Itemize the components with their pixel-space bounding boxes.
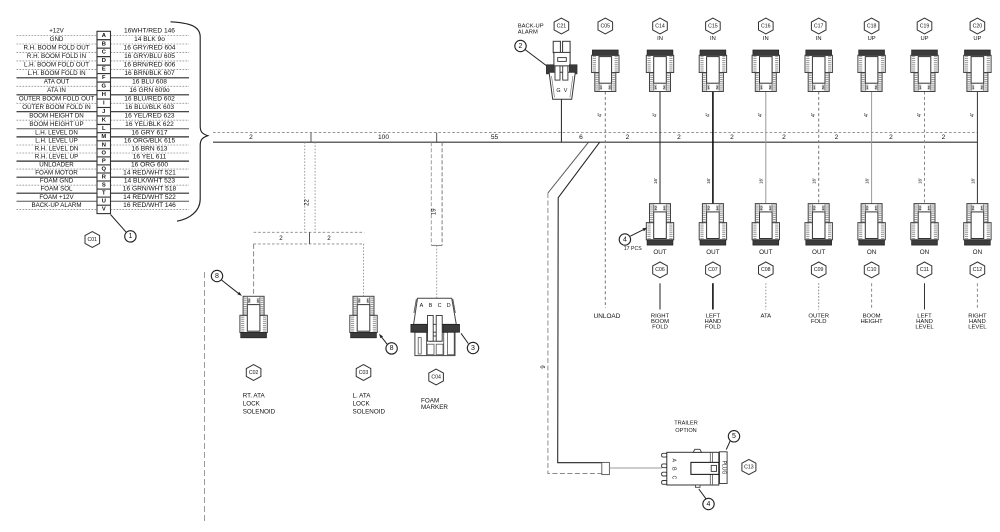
svg-text:4': 4' <box>864 113 870 117</box>
svg-text:R.H. LEVEL DN: R.H. LEVEL DN <box>35 146 79 153</box>
svg-text:A: A <box>420 303 424 309</box>
svg-text:T: T <box>102 191 106 197</box>
svg-text:16 YEL 611: 16 YEL 611 <box>133 154 167 161</box>
svg-text:GND: GND <box>50 36 64 43</box>
svg-text:A: A <box>670 459 676 463</box>
svg-text:C17: C17 <box>814 23 824 29</box>
svg-text:L: L <box>102 126 106 132</box>
svg-text:C: C <box>670 476 676 480</box>
svg-text:OUT: OUT <box>653 249 666 256</box>
svg-text:FOAM +12V: FOAM +12V <box>39 194 74 201</box>
svg-text:4': 4' <box>705 113 711 117</box>
svg-text:PLUG: PLUG <box>720 461 726 475</box>
svg-text:BACK-UP ALARM: BACK-UP ALARM <box>31 202 81 209</box>
svg-text:16 BRN/RED 606: 16 BRN/RED 606 <box>124 62 176 69</box>
svg-text:UNLOAD: UNLOAD <box>594 313 621 320</box>
svg-text:16 GRN 609o: 16 GRN 609o <box>129 87 170 94</box>
svg-text:16 BRN 613: 16 BRN 613 <box>132 146 168 153</box>
svg-text:55: 55 <box>491 134 499 141</box>
svg-text:UP: UP <box>868 36 876 42</box>
svg-text:C16: C16 <box>761 23 771 29</box>
svg-text:ALARM: ALARM <box>518 30 538 36</box>
svg-text:16': 16' <box>759 178 764 184</box>
svg-text:J: J <box>102 109 105 115</box>
svg-text:16': 16' <box>917 178 922 184</box>
svg-text:16 BLU/RED 602: 16 BLU/RED 602 <box>124 96 175 103</box>
svg-text:FOAM MOTOR: FOAM MOTOR <box>35 170 78 177</box>
svg-text:C15: C15 <box>708 23 718 29</box>
svg-text:1: 1 <box>128 233 132 240</box>
svg-text:C02: C02 <box>249 370 259 376</box>
svg-text:16': 16' <box>706 178 711 184</box>
svg-text:D: D <box>102 58 106 64</box>
svg-text:C13: C13 <box>744 464 754 470</box>
svg-text:4': 4' <box>758 113 764 117</box>
svg-text:2: 2 <box>942 134 946 141</box>
svg-text:16 BRN/BLK 607: 16 BRN/BLK 607 <box>124 70 175 77</box>
svg-text:HEIGHT: HEIGHT <box>860 319 883 325</box>
svg-text:E: E <box>102 67 106 73</box>
svg-text:Q: Q <box>102 166 107 172</box>
svg-text:SOLENOID: SOLENOID <box>353 408 386 415</box>
svg-text:C01: C01 <box>88 237 98 243</box>
svg-text:O: O <box>102 150 107 156</box>
svg-text:LOCK: LOCK <box>353 400 371 407</box>
svg-text:4': 4' <box>811 113 817 117</box>
svg-text:B: B <box>429 303 433 309</box>
svg-text:C03: C03 <box>359 370 369 376</box>
svg-text:OUT: OUT <box>759 249 772 256</box>
svg-text:8: 8 <box>390 345 394 352</box>
svg-text:4: 4 <box>707 501 711 508</box>
svg-text:UNLOADER: UNLOADER <box>39 162 74 169</box>
svg-text:L.H. BOOM FOLD IN: L.H. BOOM FOLD IN <box>27 70 85 77</box>
svg-text:6: 6 <box>579 134 583 141</box>
svg-text:BOOM HEIGHT UP: BOOM HEIGHT UP <box>29 121 83 128</box>
svg-text:2: 2 <box>889 134 893 141</box>
svg-text:14 BLK/WHT 523: 14 BLK/WHT 523 <box>124 178 176 185</box>
svg-text:16 BLU/BLK 603: 16 BLU/BLK 603 <box>125 104 174 111</box>
svg-text:16 GRY 617: 16 GRY 617 <box>131 129 167 136</box>
svg-text:2: 2 <box>626 134 630 141</box>
svg-text:2: 2 <box>782 134 786 141</box>
svg-text:17 PCS: 17 PCS <box>624 246 642 252</box>
svg-text:2: 2 <box>730 134 734 141</box>
svg-text:LOCK: LOCK <box>243 400 261 407</box>
svg-text:C20: C20 <box>973 23 983 29</box>
svg-text:C10: C10 <box>867 267 877 273</box>
svg-text:16 RED/WHT 146: 16 RED/WHT 146 <box>123 202 176 209</box>
svg-text:ATA IN: ATA IN <box>47 87 66 94</box>
svg-text:16 YEL/BLK 622: 16 YEL/BLK 622 <box>125 121 174 128</box>
svg-text:U: U <box>102 199 106 205</box>
svg-text:R.H. BOOM FOLD IN: R.H. BOOM FOLD IN <box>27 53 86 60</box>
svg-text:OUTER BOOM FOLD OUT: OUTER BOOM FOLD OUT <box>19 96 95 103</box>
svg-text:2: 2 <box>519 43 523 50</box>
svg-text:H: H <box>102 92 106 98</box>
svg-text:R.H. LEVEL UP: R.H. LEVEL UP <box>35 154 78 161</box>
svg-text:2: 2 <box>677 134 681 141</box>
svg-text:C14: C14 <box>655 23 665 29</box>
svg-text:ON: ON <box>973 249 983 256</box>
svg-text:F: F <box>102 75 106 81</box>
svg-text:ATA: ATA <box>761 313 772 319</box>
svg-text:L.H. LEVEL UP: L.H. LEVEL UP <box>35 137 77 144</box>
svg-text:8: 8 <box>215 273 219 280</box>
svg-text:14 BLK 9o: 14 BLK 9o <box>134 36 165 43</box>
svg-text:22: 22 <box>305 199 311 206</box>
svg-text:C07: C07 <box>708 267 718 273</box>
svg-text:16 ORG/BLK 615: 16 ORG/BLK 615 <box>124 137 176 144</box>
svg-text:16': 16' <box>865 178 870 184</box>
svg-text:16 ORG 600: 16 ORG 600 <box>131 162 168 169</box>
svg-text:ON: ON <box>920 249 930 256</box>
svg-text:IN: IN <box>763 36 769 42</box>
svg-text:FOAM GND: FOAM GND <box>40 178 74 185</box>
svg-text:16': 16' <box>812 178 817 184</box>
svg-text:+12V: +12V <box>49 28 64 35</box>
svg-text:ATA OUT: ATA OUT <box>44 79 70 86</box>
svg-text:OUTER BOOM FOLD IN: OUTER BOOM FOLD IN <box>22 104 90 111</box>
svg-text:L.H. LEVEL DN: L.H. LEVEL DN <box>35 129 78 136</box>
svg-text:FOLD: FOLD <box>652 324 668 330</box>
svg-text:4: 4 <box>623 236 627 243</box>
svg-text:UP: UP <box>973 36 981 42</box>
svg-text:BOOM HEIGHT DN: BOOM HEIGHT DN <box>29 113 84 120</box>
svg-text:LEVEL: LEVEL <box>968 324 987 330</box>
svg-text:ON: ON <box>867 249 877 256</box>
svg-text:FOAM SOL: FOAM SOL <box>41 186 74 193</box>
svg-text:16 YEL/RED 623: 16 YEL/RED 623 <box>124 113 174 120</box>
svg-text:SOLENOID: SOLENOID <box>243 408 276 415</box>
svg-text:L.H. BOOM FOLD OUT: L.H. BOOM FOLD OUT <box>24 62 89 69</box>
svg-text:2: 2 <box>327 235 331 242</box>
svg-text:14 RED/WHT 521: 14 RED/WHT 521 <box>123 170 176 177</box>
svg-text:16 BLU 608: 16 BLU 608 <box>132 79 167 86</box>
svg-text:3: 3 <box>471 345 475 352</box>
svg-text:C21: C21 <box>557 23 567 29</box>
svg-text:4': 4' <box>598 113 604 117</box>
svg-text:BACK-UP: BACK-UP <box>518 23 544 29</box>
svg-text:4': 4' <box>917 113 923 117</box>
svg-text:OPTION: OPTION <box>675 428 696 434</box>
svg-text:LEVEL: LEVEL <box>915 324 934 330</box>
svg-text:C06: C06 <box>655 267 665 273</box>
svg-text:C19: C19 <box>920 23 930 29</box>
svg-text:C18: C18 <box>867 23 877 29</box>
svg-text:16WHT/RED 146: 16WHT/RED 146 <box>124 28 175 35</box>
svg-text:FOLD: FOLD <box>811 319 827 325</box>
svg-text:L. ATA: L. ATA <box>353 393 372 400</box>
svg-text:V: V <box>564 88 568 94</box>
svg-text:OUT: OUT <box>706 249 719 256</box>
svg-text:16': 16' <box>653 178 658 184</box>
svg-text:G: G <box>102 84 107 90</box>
svg-text:OUT: OUT <box>812 249 825 256</box>
svg-text:16 GRN/WHT 518: 16 GRN/WHT 518 <box>123 186 177 193</box>
svg-text:C11: C11 <box>920 267 929 273</box>
svg-text:C04: C04 <box>431 374 441 380</box>
svg-text:4': 4' <box>652 113 658 117</box>
svg-text:RT. ATA: RT. ATA <box>243 393 266 400</box>
svg-text:C12: C12 <box>973 267 983 273</box>
svg-text:MARKER: MARKER <box>421 404 448 411</box>
svg-text:16 GRY/BLU 605: 16 GRY/BLU 605 <box>124 53 175 60</box>
svg-text:IN: IN <box>710 36 716 42</box>
svg-text:N: N <box>102 142 106 148</box>
svg-text:C09: C09 <box>814 267 824 273</box>
svg-text:5: 5 <box>732 433 736 440</box>
svg-text:19: 19 <box>431 208 437 215</box>
svg-text:IN: IN <box>816 36 822 42</box>
svg-text:C: C <box>438 303 442 309</box>
svg-text:100: 100 <box>378 134 389 141</box>
svg-text:16': 16' <box>970 178 975 184</box>
svg-text:P: P <box>102 158 106 164</box>
svg-text:R.H. BOOM FOLD OUT: R.H. BOOM FOLD OUT <box>23 45 89 52</box>
svg-text:4': 4' <box>970 113 976 117</box>
svg-text:S: S <box>102 183 106 189</box>
svg-text:V: V <box>102 207 106 213</box>
svg-text:FOLD: FOLD <box>705 324 721 330</box>
svg-text:UP: UP <box>920 36 928 42</box>
svg-text:B: B <box>102 41 106 47</box>
svg-text:C05: C05 <box>601 23 611 29</box>
svg-text:B: B <box>670 467 676 471</box>
svg-text:D: D <box>447 303 451 309</box>
svg-text:16 GRY/RED 604: 16 GRY/RED 604 <box>124 45 176 52</box>
svg-text:14 RED/WHT 522: 14 RED/WHT 522 <box>123 194 176 201</box>
svg-text:TRAILER: TRAILER <box>674 420 698 426</box>
svg-text:2: 2 <box>835 134 839 141</box>
svg-text:C08: C08 <box>761 267 771 273</box>
svg-text:2: 2 <box>249 134 253 141</box>
svg-text:IN: IN <box>657 36 663 42</box>
svg-text:G: G <box>556 88 560 94</box>
svg-text:2: 2 <box>279 235 283 242</box>
svg-text:M: M <box>101 134 106 140</box>
